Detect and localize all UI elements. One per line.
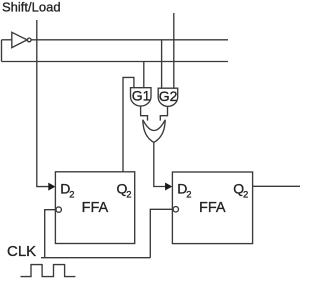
flip-flop FFA2 — [172, 172, 252, 244]
arrowhead FFA1 D input — [48, 183, 55, 191]
clock bubble FFA1 — [56, 207, 61, 212]
svg-text:CLK: CLK — [7, 243, 36, 260]
or gate — [143, 120, 165, 131]
wire FFA2 Q2 output — [253, 185, 300, 187]
and gate G1 — [131, 88, 152, 106]
svg-text:2: 2 — [69, 189, 74, 200]
wire lower rail — [2, 61, 229, 63]
svg-text:2: 2 — [186, 189, 191, 200]
flip-flop FFA1 — [55, 172, 134, 244]
clock waveform — [21, 265, 76, 277]
wire CLK distribution line — [41, 257, 150, 259]
wire inverter input — [2, 39, 12, 41]
svg-text:G2: G2 — [159, 88, 178, 104]
wire left rail down — [1, 40, 3, 62]
wire parallel input to G2 from top — [173, 13, 175, 88]
wire G1 output to OR input — [141, 106, 148, 120]
and gate G2 — [158, 88, 178, 106]
svg-text:FFA: FFA — [82, 200, 109, 216]
wire G2 left input from upper rail — [161, 40, 163, 88]
wire G1 right input from lower rail — [143, 62, 145, 88]
wire CLK to FFA2 bubble — [150, 209, 173, 257]
wire G2 output to OR input — [160, 107, 167, 121]
svg-text:Shift/Load: Shift/Load — [2, 0, 61, 14]
clock bubble FFA2 — [173, 207, 178, 212]
svg-text:2: 2 — [126, 189, 131, 200]
wire OR output to FFA2 D input — [154, 142, 166, 186]
wire inverter output rail — [31, 39, 228, 41]
inverter — [12, 32, 27, 47]
wire FFA1 Q2 hook to G1 left input — [123, 77, 134, 171]
svg-text:G1: G1 — [132, 88, 151, 104]
arrowhead FFA2 D input — [165, 183, 172, 191]
wire Shift/Load vertical to FFA1 D input — [37, 20, 49, 187]
svg-text:FFA: FFA — [199, 200, 226, 216]
wire CLK to FFA1 bubble — [45, 210, 56, 258]
svg-text:2: 2 — [243, 189, 248, 200]
